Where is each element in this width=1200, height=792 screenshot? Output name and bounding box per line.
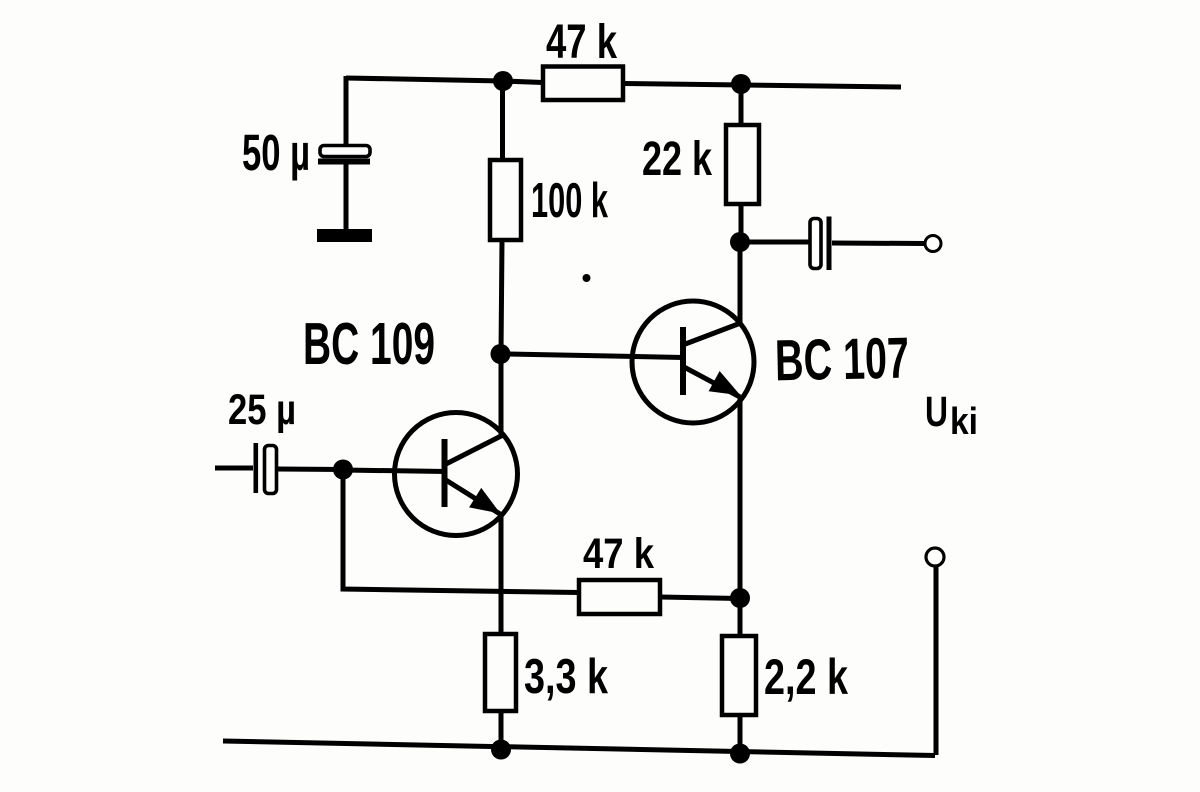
svg-text:100 k: 100 k — [531, 174, 608, 228]
svg-text:22 k: 22 k — [642, 133, 712, 186]
svg-text:25 µ: 25 µ — [228, 386, 296, 434]
svg-text:2,2 k: 2,2 k — [764, 649, 848, 705]
svg-text:U: U — [925, 388, 948, 436]
svg-text:50 µ: 50 µ — [242, 124, 310, 181]
svg-text:BC 109: BC 109 — [303, 311, 435, 377]
svg-text:3,3 k: 3,3 k — [524, 650, 609, 704]
svg-text:ki: ki — [950, 401, 978, 443]
svg-text:BC 107: BC 107 — [774, 326, 909, 394]
svg-text:47 k: 47 k — [546, 16, 617, 69]
svg-text:47 k: 47 k — [583, 530, 654, 578]
